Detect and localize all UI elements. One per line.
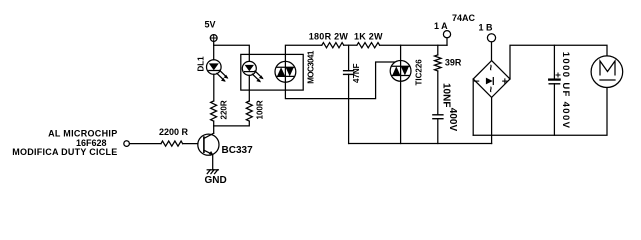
wire 39R to 10NF	[437, 71, 439, 115]
transistor Q1 BC337	[198, 133, 219, 155]
wire AC bottom rail	[349, 143, 492, 145]
bridge polarity marks	[474, 79, 507, 83]
svg-text:~: ~	[484, 64, 496, 71]
resistor 1K 2W	[357, 43, 380, 48]
svg-text:39R: 39R	[445, 58, 462, 68]
ground	[207, 170, 218, 174]
opto LED U1	[242, 61, 263, 82]
wire junction 100R to collector	[214, 121, 250, 126]
svg-text:GND: GND	[205, 175, 227, 186]
capacitor C3 1000 UF 400V	[549, 45, 560, 135]
node 1 A terminal	[443, 31, 450, 38]
svg-text:1000 UF 400V: 1000 UF 400V	[560, 52, 571, 129]
wire opto triac bottom gate path	[285, 62, 395, 99]
resistor 39R	[437, 45, 439, 55]
node 1 B terminal	[487, 34, 495, 42]
capacitor C2 10NF 400V	[433, 115, 443, 144]
svg-text:~: ~	[484, 86, 496, 93]
svg-text:1 B: 1 B	[479, 23, 494, 33]
wire bridge bottom down	[491, 97, 493, 143]
wire input to resistor	[130, 143, 162, 145]
resistor 180R 2W	[322, 43, 344, 48]
opto triac U1	[275, 61, 296, 82]
triac TIC226	[390, 45, 411, 143]
svg-text:2200 R: 2200 R	[159, 127, 189, 137]
svg-text:BC337: BC337	[222, 145, 254, 156]
svg-text:74AC: 74AC	[452, 13, 476, 23]
svg-text:10NF: 10NF	[441, 83, 452, 107]
wire between resistors	[344, 44, 357, 46]
svg-text:220R: 220R	[220, 100, 229, 119]
wire bridge right to DC rail	[510, 45, 607, 79]
wire 5V down	[213, 41, 215, 59]
motor M1	[591, 56, 623, 88]
wire 5V rail to opto LED	[214, 45, 250, 61]
svg-text:1K 2W: 1K 2W	[354, 32, 383, 42]
resistor 100R	[246, 101, 252, 121]
svg-text:1 A: 1 A	[434, 21, 448, 31]
wire resistor to base	[183, 143, 198, 145]
capacitor C1 47NF	[344, 45, 354, 143]
wire collector up	[213, 121, 215, 133]
value 10NF 400V	[441, 83, 459, 131]
wire 1K to 1A terminal	[380, 44, 447, 46]
wire emitter down	[212, 155, 214, 170]
wire DC minus rail	[473, 88, 607, 136]
svg-text:DL1: DL1	[197, 56, 206, 72]
svg-text:MODIFICA DUTY CICLE: MODIFICA DUTY CICLE	[12, 147, 117, 157]
op-amp U1 MOC3041 box	[241, 54, 303, 90]
wire opto triac top to rail	[285, 45, 321, 61]
wire DL1 to 220R	[213, 74, 215, 101]
power 5V terminal	[210, 35, 217, 42]
bridge rectifier B1	[473, 61, 510, 98]
svg-text:100R: 100R	[256, 100, 265, 119]
svg-text:MOC3041: MOC3041	[306, 50, 315, 84]
resistor 2200 R	[161, 141, 183, 146]
node input terminal	[124, 141, 130, 147]
LED DL1	[207, 60, 229, 82]
svg-text:400V: 400V	[447, 108, 458, 132]
svg-text:TIC226: TIC226	[414, 59, 423, 86]
wire 1A to rail	[446, 38, 448, 45]
resistor 220R	[211, 101, 217, 121]
svg-text:47NF: 47NF	[352, 63, 361, 83]
wire opto LED to 100R	[248, 75, 250, 101]
svg-text:5V: 5V	[205, 20, 216, 30]
label AL MICROCHIP 16F628 MODIFICA DUTY CICLE	[12, 128, 117, 157]
wire bridge left down	[472, 79, 474, 135]
wire 1B to bridge	[491, 42, 493, 61]
svg-text:180R 2W: 180R 2W	[309, 32, 349, 42]
